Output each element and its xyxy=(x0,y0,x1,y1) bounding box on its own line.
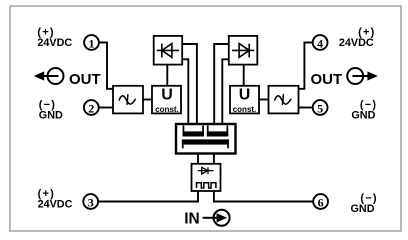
svg-text:GND: GND xyxy=(39,110,63,122)
wire U const right to converter right xyxy=(259,99,269,101)
svg-text:24VDC: 24VDC xyxy=(339,37,374,49)
OUT symbol left (arrow out of circle) xyxy=(34,68,64,84)
wire diode box right upper to transformer xyxy=(214,44,229,124)
diode box left xyxy=(154,36,183,65)
wire transformer to oscillator right xyxy=(213,154,215,164)
svg-text:const.: const. xyxy=(233,105,257,114)
wire from terminal 4 to converter box right xyxy=(299,43,313,89)
wire diode box left upper to transformer xyxy=(182,44,197,124)
svg-text:5: 5 xyxy=(317,101,323,115)
terminal 3 xyxy=(83,194,98,209)
oscillator box xyxy=(192,164,221,191)
converter box right xyxy=(269,86,299,114)
terminal 5 xyxy=(313,100,328,115)
transformer secondary winding xyxy=(182,139,229,148)
svg-text:GND: GND xyxy=(351,110,375,122)
svg-text:OUT: OUT xyxy=(311,71,343,88)
svg-text:const.: const. xyxy=(155,105,179,114)
svg-text:24VDC: 24VDC xyxy=(38,199,73,211)
svg-text:U: U xyxy=(161,86,173,103)
U const box left xyxy=(152,86,181,114)
svg-text:2: 2 xyxy=(88,101,94,115)
diode left (pointing left) xyxy=(157,44,179,58)
svg-text:U: U xyxy=(239,86,251,103)
terminal 6 xyxy=(313,194,328,209)
terminal 4 xyxy=(313,35,328,50)
sine symbol right xyxy=(275,95,291,105)
sine symbol left xyxy=(119,95,135,105)
transformer box xyxy=(176,124,236,154)
svg-text:4: 4 xyxy=(317,36,323,50)
wire diode box right lower to transformer xyxy=(222,59,229,124)
svg-text:3: 3 xyxy=(88,195,94,209)
wire U const left to diode box left xyxy=(166,65,168,86)
wire converter to U const left xyxy=(143,99,152,101)
wire transformer to oscillator left xyxy=(197,154,199,164)
wire oscillator to terminal 3 xyxy=(98,191,198,202)
diode box right xyxy=(229,36,257,65)
terminal 1 xyxy=(84,35,99,50)
svg-text:OUT: OUT xyxy=(69,71,101,88)
wire from terminal 5 to converter box right xyxy=(299,107,314,109)
svg-text:6: 6 xyxy=(318,195,324,209)
svg-text:IN: IN xyxy=(184,210,200,227)
OUT symbol right (arrow out of circle) xyxy=(347,68,378,84)
converter box left xyxy=(113,86,143,114)
U const box right xyxy=(230,86,259,114)
wire from terminal 2 to converter box left xyxy=(98,107,113,109)
transformer primary winding right xyxy=(207,126,228,137)
svg-text:GND: GND xyxy=(351,203,375,215)
oscillator diode xyxy=(198,167,214,174)
terminal 2 xyxy=(84,100,99,115)
transformer primary winding left xyxy=(183,126,204,137)
oscillator square wave xyxy=(197,183,216,188)
wire diode box left lower to transformer xyxy=(182,59,188,124)
wire oscillator to terminal 6 xyxy=(214,191,313,202)
svg-text:1: 1 xyxy=(89,36,95,50)
wire from terminal 1 to converter box left xyxy=(99,43,113,89)
wire U const right to diode box right xyxy=(243,65,245,86)
IN symbol (arrow into circle) xyxy=(203,210,230,226)
diode right (pointing right) xyxy=(232,44,254,58)
svg-text:24VDC: 24VDC xyxy=(37,37,72,49)
